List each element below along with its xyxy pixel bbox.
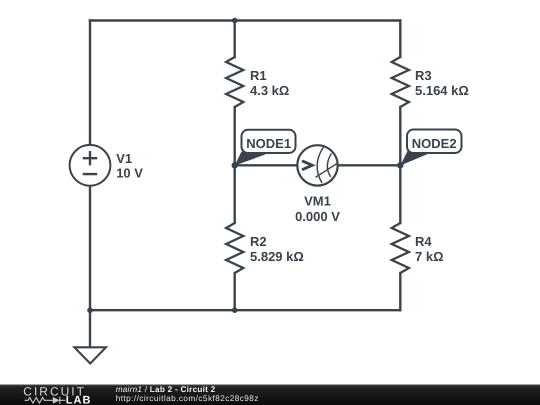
svg-text:R4: R4 (415, 234, 432, 249)
svg-text:7 kΩ: 7 kΩ (415, 249, 444, 264)
wire right branch mid (399, 107, 401, 223)
resistor R2 (226, 223, 243, 273)
svg-text:5.829 kΩ: 5.829 kΩ (250, 249, 304, 264)
node junction bottom middle (232, 307, 238, 313)
svg-text:R3: R3 (415, 68, 432, 83)
CircuitLab logo resistor-diode glyph (25, 397, 66, 404)
voltage source V1 (70, 145, 111, 186)
svg-text:5.164 kΩ: 5.164 kΩ (415, 83, 469, 98)
svg-text:0.000 V: 0.000 V (295, 209, 340, 224)
node junction top (232, 18, 238, 24)
node NODE2 junction (397, 162, 403, 168)
node NODE1 callout (235, 130, 296, 166)
svg-text:mairn1 / Lab 2 - Circuit 2: mairn1 / Lab 2 - Circuit 2 (116, 385, 216, 394)
resistor R1 (226, 57, 243, 107)
wire top rail (90, 19, 400, 21)
svg-text:10 V: 10 V (116, 165, 143, 180)
node junction ground (87, 307, 93, 313)
ground (74, 347, 106, 363)
resistor R4 (392, 223, 409, 273)
wire voltmeter to node2 (338, 164, 401, 166)
svg-text:R2: R2 (250, 234, 267, 249)
svg-text:NODE1: NODE1 (246, 136, 291, 151)
wire left rail lower (89, 186, 91, 311)
svg-text:V1: V1 (116, 151, 132, 166)
node NODE2 callout (400, 130, 461, 166)
svg-text:LAB: LAB (66, 395, 92, 405)
svg-text:4.3 kΩ: 4.3 kΩ (250, 83, 289, 98)
wire middle branch upper (233, 21, 235, 58)
svg-text:VM1: VM1 (304, 193, 331, 208)
wire right branch lower (399, 273, 401, 310)
svg-text:http://circuitlab.com/c5kf82c2: http://circuitlab.com/c5kf82c28c98z (116, 394, 259, 403)
wire middle branch lower (233, 273, 235, 310)
voltmeter VM1 (297, 145, 337, 185)
wire middle branch mid (233, 107, 235, 223)
wire right branch upper (399, 21, 401, 58)
svg-text:R1: R1 (250, 68, 267, 83)
node NODE1 junction (232, 162, 238, 168)
svg-text:NODE2: NODE2 (412, 136, 457, 151)
wire node1 to voltmeter (235, 164, 298, 166)
ground stub wire (89, 310, 91, 347)
wire bottom rail (90, 309, 400, 311)
resistor R3 (392, 57, 409, 107)
wire left rail upper (89, 21, 91, 145)
footer bar (0, 385, 540, 405)
